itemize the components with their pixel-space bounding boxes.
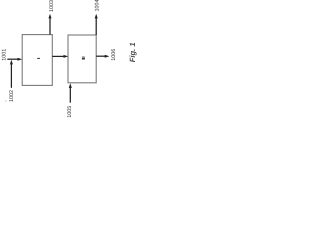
wire 1003 output arrow [49,17,51,34]
svg-text:1004: 1004 [95,0,101,12]
label I [37,57,40,59]
svg-text:1006: 1006 [111,49,117,61]
wire 1002 input arrow [10,63,12,88]
svg-text:1005: 1005 [67,106,73,118]
wire 1006 output arrow [96,55,106,57]
wire 1004 output arrow [95,17,97,35]
speck artifact [5,101,6,102]
svg-text:1001: 1001 [2,49,8,61]
svg-text:1002: 1002 [9,90,15,102]
svg-text:1003: 1003 [49,0,55,12]
wire 1001 input arrow [7,58,18,60]
box II [68,35,96,83]
wire 1005 input arrow [69,86,71,102]
wire arrow box I to box II [52,55,65,57]
label II [82,56,85,58]
svg-text:Fig. 1: Fig. 1 [128,42,137,62]
box I [22,35,52,86]
